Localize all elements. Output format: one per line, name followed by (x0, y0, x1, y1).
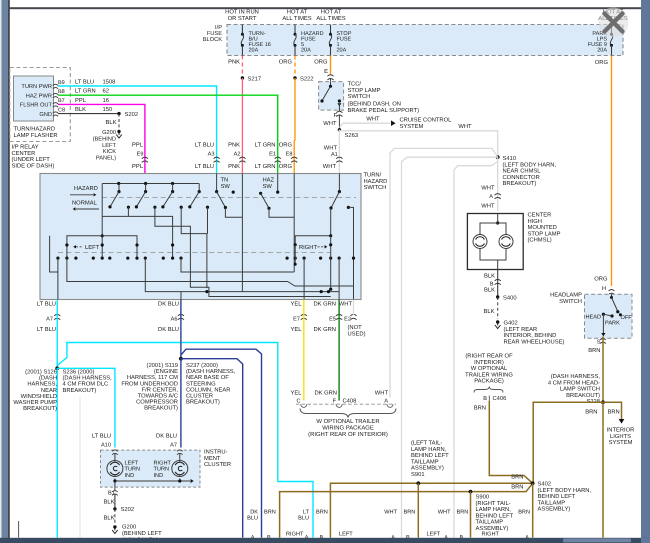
wire BRN S228 to S402 (533, 402, 603, 483)
label RIGHT with arrow (299, 244, 327, 251)
svg-text:COMPRESSOR: COMPRESSOR (136, 399, 178, 406)
switch TN SW contact (215, 174, 235, 210)
svg-text:TRAILER WIRING: TRAILER WIRING (465, 371, 513, 378)
svg-text:B8: B8 (58, 89, 65, 95)
wire WHT S410 branch to right rear lamp (454, 162, 498, 538)
svg-text:CENTER: CENTER (12, 150, 36, 157)
wire BLK 150 flasher C8 to S202 (58, 106, 119, 114)
CHMSL lamp box (467, 214, 523, 270)
wire BLK S202 to G200 (dashed) (106, 114, 119, 129)
svg-text:BLU: BLU (298, 515, 309, 521)
labels DK BLU A bottom (247, 509, 258, 541)
svg-text:RIGHT: RIGHT (286, 531, 304, 537)
wire YEL switch E7 to C408 C (291, 300, 304, 405)
svg-text:SYSTEM: SYSTEM (609, 439, 633, 446)
wire LT BLU branch to rear right lamp (57, 343, 313, 538)
switch internal left loop (65, 236, 138, 258)
wire BRN rail S900 to S402 (280, 483, 533, 537)
svg-text:S202: S202 (125, 111, 139, 118)
label W OPTIONAL TRAILER WIRING PACKAGE (RIGHT REAR OF INTERIOR) (308, 418, 388, 438)
svg-text:PARK: PARK (605, 321, 620, 327)
svg-text:WHT: WHT (458, 124, 472, 130)
svg-text:BLK: BLK (106, 120, 117, 126)
svg-text:LT BLU: LT BLU (195, 164, 214, 170)
svg-text:F: F (333, 398, 337, 404)
svg-text:INTERIOR: INTERIOR (607, 427, 635, 434)
stationary contacts row (127, 206, 209, 209)
switch wiper contact 4 (188, 184, 201, 209)
labels WHT A bottom box3 (384, 509, 397, 541)
wire internal to E7 pin (303, 258, 305, 299)
wire PNK fuse16 to S217 (dashed) (228, 56, 242, 79)
svg-text:ALL TIMES: ALL TIMES (316, 15, 345, 22)
label I/P FUSE BLOCK (203, 24, 223, 43)
svg-text:INSTRU-: INSTRU- (204, 449, 228, 456)
wire HAZ SW to ORG pin (269, 174, 294, 273)
pin S headlamp switch (588, 339, 606, 354)
svg-text:TURN: TURN (125, 467, 141, 473)
svg-text:(LEFT REAR: (LEFT REAR (504, 326, 538, 333)
svg-text:WHT: WHT (375, 391, 389, 397)
svg-text:4 CM FROM HEAD-: 4 CM FROM HEAD- (548, 379, 600, 386)
svg-text:LEFT: LEFT (102, 143, 116, 149)
label (2001) S126 block (13, 369, 57, 413)
svg-text:E8: E8 (286, 152, 293, 158)
labels LT BLU A bottom (298, 509, 309, 541)
wire ORG stop fuse to TCC switch pin E (314, 56, 333, 83)
svg-text:BEHIND LEFT: BEHIND LEFT (476, 513, 514, 519)
svg-text:20A: 20A (597, 48, 607, 54)
wire BRN rail S901 to S402 (330, 483, 532, 537)
svg-text:(CHMSL): (CHMSL) (528, 237, 552, 244)
svg-text:WIRING PACKAGE: WIRING PACKAGE (322, 424, 374, 431)
label HOT AT ALL TIMES (hazard fuse) (282, 9, 311, 23)
svg-text:TAILLAMP: TAILLAMP (411, 459, 439, 465)
svg-text:BRN: BRN (588, 348, 600, 354)
svg-text:WHT: WHT (384, 509, 397, 515)
svg-text:150: 150 (103, 106, 113, 113)
svg-text:BRN: BRN (457, 509, 469, 515)
svg-text:B9: B9 (58, 80, 65, 86)
wire internal to A7 pin (57, 258, 59, 299)
wire BLK S400 to G402 (dashed) (484, 297, 498, 319)
svg-text:CENTER: CENTER (528, 212, 552, 219)
svg-text:KICK: KICK (103, 149, 116, 155)
svg-text:W OPTIONAL: W OPTIONAL (471, 365, 508, 372)
svg-text:WHT: WHT (481, 186, 495, 192)
brace under C408 (300, 409, 396, 418)
turn/hazard switch SW1 (box) (40, 174, 361, 300)
switch wiper contact 1 (108, 184, 120, 209)
svg-text:BRN: BRN (585, 410, 597, 416)
svg-text:ASSEMBLY): ASSEMBLY) (538, 506, 571, 513)
switch internal left drop (101, 184, 104, 259)
wire BRN S900 down to right rear lamp B (470, 492, 472, 538)
svg-text:BRN: BRN (316, 509, 328, 515)
svg-text:LT BLU: LT BLU (195, 143, 214, 149)
svg-text:YEL: YEL (291, 391, 303, 397)
label HOT AT ALL TIMES (stop fuse) (316, 9, 345, 23)
labels LT BLU A7 below switch (37, 301, 60, 333)
switch internal lower bus 1 (67, 258, 354, 286)
svg-text:(NOT: (NOT (348, 324, 363, 331)
svg-text:DK BLU: DK BLU (158, 301, 179, 307)
svg-text:PPL: PPL (132, 143, 144, 149)
label S410 block (503, 155, 557, 187)
svg-text:BREAKOUT): BREAKOUT) (186, 399, 220, 406)
svg-text:C: C (296, 398, 300, 404)
svg-text:FROM UNDERHOOD: FROM UNDERHOOD (121, 380, 178, 387)
svg-text:BRN: BRN (404, 509, 416, 515)
svg-text:16: 16 (103, 97, 109, 104)
fuse TURN-B/U FUSE 16 20A (241, 25, 271, 56)
svg-text:H: H (602, 286, 606, 292)
labels DK GRN E5 below switch (313, 300, 342, 333)
svg-text:WHT: WHT (339, 301, 353, 307)
wire WHT S410 branch to left rear lamp (402, 157, 498, 537)
dashed actuator line upper (102, 197, 356, 199)
headlamp switch (dashed box) (585, 294, 633, 338)
svg-text:BRN: BRN (474, 405, 486, 411)
fuse PARK LPS FUSE 9 20A (588, 25, 613, 56)
svg-text:SIDE OF DASH): SIDE OF DASH) (12, 162, 55, 169)
svg-text:C8: C8 (58, 107, 65, 113)
switch wiper contact 2 (135, 184, 147, 209)
svg-text:SWITCH: SWITCH (364, 184, 387, 191)
svg-text:SYSTEM: SYSTEM (400, 123, 424, 130)
svg-text:TURN: TURN (154, 467, 170, 473)
svg-text:(2001) S126: (2001) S126 (25, 369, 57, 376)
svg-text:LT BLU: LT BLU (92, 434, 111, 440)
svg-text:(RIGHT REAR OF INTERIOR): (RIGHT REAR OF INTERIOR) (308, 431, 388, 438)
CHMSL internal wiring (480, 214, 506, 270)
dashed actuator line lower (58, 252, 330, 254)
wire BLK B1 to S202 (104, 494, 115, 509)
label HAZ SW (263, 178, 275, 190)
wire LT BLU switch A7 down to S126 (56, 300, 58, 369)
svg-text:HAZ PWR: HAZ PWR (26, 93, 52, 99)
svg-text:MOUNTED: MOUNTED (528, 224, 557, 231)
svg-text:S402: S402 (538, 481, 552, 488)
splice S228 (601, 400, 605, 404)
label (RIGHT REAR OF INTERIOR) W OPTIONAL TRAILER WIRING PACKAGE (465, 353, 513, 385)
svg-text:NEAR CHMSL: NEAR CHMSL (503, 168, 542, 175)
switch internal lower bus 2 (145, 258, 339, 293)
labels BRN A bottom right (518, 509, 530, 541)
fuse STOP FUSE 1 20A (329, 25, 352, 56)
svg-text:S400: S400 (503, 294, 517, 301)
svg-text:A: A (384, 398, 388, 404)
label HOT IN RUN OR START (225, 9, 259, 23)
svg-text:HAZARD: HAZARD (364, 179, 388, 185)
connector C408 (dashed) (296, 397, 396, 407)
svg-text:HARNESS,: HARNESS, (27, 381, 57, 388)
arrow to CRUISE CONTROL SYSTEM (391, 116, 452, 130)
TCC switch contacts (320, 82, 341, 106)
svg-text:SW: SW (221, 183, 231, 190)
label WHT A at C408 (375, 391, 389, 405)
svg-text:HAZ: HAZ (263, 178, 275, 184)
switch internal top bus (102, 182, 199, 185)
svg-text:(BEHIND: (BEHIND (93, 136, 116, 143)
svg-text:B1: B1 (108, 491, 115, 497)
splice S900 (469, 490, 473, 494)
lamp RIGHT TURN IND (154, 461, 188, 479)
svg-text:RIGHT: RIGHT (482, 531, 500, 537)
svg-text:WINDSHIELD: WINDSHIELD (21, 393, 57, 400)
close X cursor mark (599, 8, 629, 38)
svg-text:DK GRN: DK GRN (314, 390, 337, 397)
svg-text:DK GRN: DK GRN (313, 300, 336, 307)
svg-text:CRUISE CONTROL: CRUISE CONTROL (400, 116, 453, 123)
switch wiper contact 3 (161, 184, 174, 209)
svg-text:STOP LAMP: STOP LAMP (528, 230, 561, 237)
svg-text:LIGHTS: LIGHTS (610, 433, 631, 440)
label (DASH HARNESS 4 CM FROM HEADLAMP SWITCH BREAKOUT) S228 (548, 373, 601, 405)
pin A7 cluster break (177, 450, 183, 461)
wire DK BLU branch upper to bottom right (181, 349, 262, 537)
wire DK BLU switch A6 down to S119 (180, 300, 182, 359)
wire LT BLU S126 to instrument cluster A10 (57, 368, 115, 447)
svg-text:WHT: WHT (323, 164, 337, 170)
svg-text:HAZARD: HAZARD (74, 186, 98, 192)
wire BRN S901 down to left rear lamp B (417, 483, 419, 537)
svg-text:ORG: ORG (594, 276, 608, 283)
svg-text:STEERING: STEERING (186, 380, 216, 387)
svg-text:I/P RELAY: I/P RELAY (12, 144, 39, 151)
svg-text:S217: S217 (248, 75, 262, 82)
labels PPL E9 at switch (132, 143, 148, 171)
wire WHT S410 branch to trailer connector A (390, 148, 498, 397)
label (2001) S119 block (121, 362, 178, 412)
svg-text:(DASH HARNESS,: (DASH HARNESS, (186, 368, 236, 375)
svg-text:(2001) S119: (2001) S119 (147, 362, 178, 369)
svg-text:WHT: WHT (438, 509, 451, 515)
svg-text:S263: S263 (345, 132, 359, 139)
svg-text:A: A (489, 194, 493, 200)
svg-text:G402: G402 (504, 320, 518, 327)
pin B8 flasher (53, 89, 65, 98)
svg-text:WHT: WHT (323, 121, 337, 127)
svg-text:BLK: BLK (104, 516, 115, 522)
svg-text:(UNDER LEFT: (UNDER LEFT (12, 156, 51, 163)
svg-text:20A: 20A (337, 48, 347, 54)
wire PNK S217 to turn/hazard switch A2 (241, 78, 243, 174)
wire DK BLU S119 to instrument cluster A7 (180, 359, 182, 448)
labels LT GRN E1 at switch (255, 142, 281, 171)
cluster internal wire with arrow (113, 479, 193, 483)
labels ORG E8 at switch (279, 142, 298, 171)
wire BRN headlamp switch S to S228 (602, 337, 604, 403)
svg-text:INTERIOR): INTERIOR) (474, 359, 504, 366)
wire BRN S402 down to lamp A (532, 483, 534, 537)
svg-text:CONNECTOR: CONNECTOR (503, 174, 540, 181)
arrow to INTERIOR LIGHTS SYSTEM (607, 419, 635, 446)
svg-text:ORG: ORG (314, 59, 328, 66)
splice S222 (293, 75, 313, 82)
wire LT BLU 1508 flasher B9 to switch A3 (58, 79, 217, 174)
label BRN BRN at S402 (511, 475, 523, 491)
wire BLK S202 to G200 (dashed) (104, 509, 115, 524)
svg-text:LT BLU: LT BLU (37, 327, 56, 333)
svg-text:NORMAL: NORMAL (72, 199, 98, 206)
labels BRN B bottom box4 (457, 509, 469, 541)
wire PPL 16 flasher B7 to switch E9 (58, 97, 145, 174)
svg-text:BRN: BRN (608, 410, 620, 416)
splice S402 (531, 481, 535, 485)
switch HAZ SW contact (259, 174, 279, 210)
svg-text:(DASH HARNESS,: (DASH HARNESS, (551, 373, 601, 380)
svg-text:(BEHIND LEFT: (BEHIND LEFT (122, 530, 162, 537)
wire BRN S228 down to right rear lamp (602, 402, 604, 537)
svg-text:LEFT: LEFT (427, 531, 441, 537)
svg-text:OFF: OFF (621, 315, 633, 321)
svg-text:BLK: BLK (484, 288, 495, 294)
svg-text:BEHIND LEFT: BEHIND LEFT (411, 453, 449, 459)
wire ORG park fuse to headlamp switch H (595, 56, 612, 287)
svg-text:LAMP FLASHER: LAMP FLASHER (14, 132, 58, 139)
TCC/stop lamp switch (dashed box) (319, 82, 344, 111)
splice S202 (cluster) (113, 506, 134, 513)
switch stop-lamp feed contact (329, 174, 353, 300)
label LEFT REAR box3 (427, 531, 443, 543)
pin B1 cluster (108, 481, 118, 497)
svg-text:MENT: MENT (204, 456, 221, 462)
svg-text:A2: A2 (234, 152, 241, 158)
CHMSL bulb right (499, 235, 513, 249)
label RIGHT REAR box1 (286, 531, 304, 543)
labels YEL E7 below switch (291, 301, 307, 333)
switch internal route a (102, 207, 174, 258)
svg-text:E7: E7 (293, 316, 300, 322)
label LEFT with arrow (73, 245, 99, 251)
svg-text:(DASH HARNESS,: (DASH HARNESS, (63, 375, 113, 382)
svg-text:USED): USED) (348, 330, 366, 337)
svg-text:RIGHT: RIGHT (154, 461, 172, 467)
labels BRN B bottom box2 (316, 509, 328, 541)
svg-text:PPL: PPL (132, 164, 144, 170)
svg-text:DK GRN: DK GRN (313, 326, 336, 333)
wire TN SW to PNK pin (225, 174, 242, 292)
I/P fuse block (dashed box) (227, 25, 623, 56)
svg-text:FLSHR OUT: FLSHR OUT (20, 103, 53, 109)
svg-text:1508: 1508 (103, 79, 116, 86)
svg-text:ORG: ORG (595, 59, 609, 66)
wire WHT S263 to switch A1 (323, 130, 343, 174)
svg-text:SW: SW (263, 183, 273, 190)
svg-text:E: E (324, 69, 328, 75)
svg-text:ALL TIMES: ALL TIMES (282, 15, 311, 22)
svg-text:BLK: BLK (484, 309, 495, 315)
svg-text:CLUSTER: CLUSTER (186, 393, 213, 400)
splice S126/S236 (55, 366, 59, 370)
svg-text:FUSE: FUSE (207, 31, 222, 37)
svg-text:BREAKOUT): BREAKOUT) (63, 387, 97, 394)
headlamp switch contacts (585, 294, 632, 336)
svg-text:ORG: ORG (279, 142, 293, 149)
svg-text:COLUMN, NEAR: COLUMN, NEAR (186, 386, 230, 393)
svg-text:LT BLU: LT BLU (37, 301, 56, 307)
svg-text:LEFT: LEFT (85, 245, 100, 251)
label TURN/HAZARD SWITCH (364, 172, 388, 192)
svg-text:S: S (597, 340, 601, 346)
svg-text:TURN PWR: TURN PWR (21, 84, 52, 90)
wire ORG S222 to turn/hazard switch E8 (293, 78, 296, 174)
ground G200 (cluster, behind left kick panel) (112, 524, 162, 543)
svg-text:BEHIND LEFT: BEHIND LEFT (538, 494, 576, 500)
svg-text:NEAR: NEAR (41, 388, 57, 394)
switch internal lower bus 3 (181, 258, 294, 272)
I/P relay center (dashed box) (10, 68, 71, 142)
wire internal to E5 pin (338, 258, 340, 299)
splice S119/S237 (179, 357, 183, 361)
svg-text:BREAKOUT): BREAKOUT) (23, 405, 57, 412)
wire WHT to cruise control system (339, 117, 390, 128)
switch internal route c (181, 207, 207, 288)
svg-text:A6: A6 (171, 316, 178, 322)
svg-text:A3: A3 (208, 152, 215, 158)
svg-text:DK BLU: DK BLU (156, 434, 177, 440)
svg-text:TOWARDS A/C: TOWARDS A/C (138, 393, 178, 400)
labels DK BLU A7 at cluster (156, 434, 177, 449)
svg-text:S222: S222 (300, 75, 314, 82)
switch internal right loop (294, 234, 333, 291)
svg-text:(DASH: (DASH (39, 375, 57, 382)
fuse HAZARD FUSE 5 20A (294, 25, 324, 56)
label CENTER HIGH MOUNTED STOP LAMP (CHMSL) (528, 212, 561, 244)
svg-text:BRAKE PEDAL SUPPORT): BRAKE PEDAL SUPPORT) (348, 107, 420, 114)
svg-text:S236 (2000): S236 (2000) (63, 369, 95, 376)
connector C406 pin B (474, 395, 507, 412)
wire WHT S410 to CHMSL (481, 157, 501, 211)
faint panel edge line (79, 397, 81, 538)
svg-text:(LEFT BODY HARN,: (LEFT BODY HARN, (538, 487, 592, 494)
svg-text:(LEFT BODY HARN,: (LEFT BODY HARN, (503, 161, 557, 168)
svg-text:YEL: YEL (291, 301, 303, 307)
svg-text:G200: G200 (102, 130, 116, 136)
svg-text:ORG: ORG (279, 163, 293, 170)
label I/P RELAY CENTER (UNDER LEFT SIDE OF DASH) (12, 144, 55, 170)
wire WHT S263 to S410 (339, 124, 497, 157)
svg-text:CLUSTER: CLUSTER (204, 461, 231, 468)
svg-text:20A: 20A (301, 48, 311, 54)
svg-text:BRN: BRN (518, 509, 530, 515)
svg-text:TURN/: TURN/ (364, 172, 382, 179)
wire ORG hazard fuse to S222 (dashed) (279, 56, 295, 79)
svg-text:LT GRN: LT GRN (75, 88, 96, 95)
svg-text:A7: A7 (170, 443, 177, 449)
svg-text:LEFT: LEFT (125, 461, 139, 467)
label HOT AT ALL TIMES (park fuse) (598, 9, 627, 23)
label TURN/HAZARD LAMP FLASHER (14, 126, 58, 139)
svg-text:TN: TN (221, 178, 229, 184)
svg-text:W OPTIONAL TRAILER: W OPTIONAL TRAILER (316, 418, 379, 425)
svg-text:E2: E2 (344, 316, 351, 322)
svg-text:A7: A7 (46, 316, 53, 322)
svg-text:BLK: BLK (104, 500, 115, 506)
svg-text:LT BLU: LT BLU (75, 80, 94, 86)
svg-text:A1: A1 (331, 152, 338, 158)
splice S901 (416, 481, 420, 485)
svg-text:TURN/HAZARD: TURN/HAZARD (14, 126, 56, 133)
svg-text:E9: E9 (137, 152, 144, 158)
svg-text:RIGHT: RIGHT (299, 244, 317, 251)
label TN SW (221, 178, 231, 190)
svg-text:IND: IND (125, 473, 135, 479)
svg-text:C408: C408 (343, 397, 357, 404)
svg-text:WHT: WHT (481, 204, 495, 210)
label HAZARD with arrow (70, 186, 98, 197)
